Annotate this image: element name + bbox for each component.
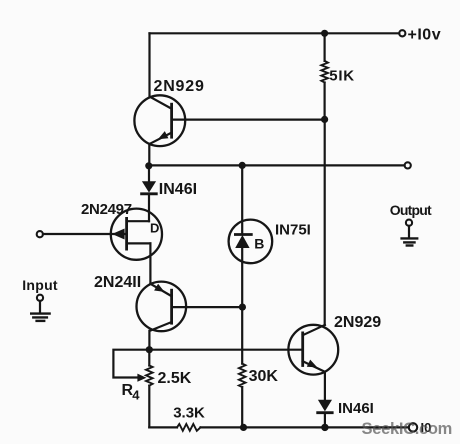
svg-text:4: 4 [132,387,140,402]
svg-text:2N2497: 2N2497 [81,201,132,218]
resistor R4 2.5K [146,350,153,428]
svg-text:30K: 30K [249,368,279,385]
svg-text:IN46I: IN46I [338,400,374,417]
svg-text:2.5K: 2.5K [158,370,192,387]
wire bottom rail left [149,426,177,428]
wire Q3 collector [148,331,150,350]
fet Q2 2N2497 [111,209,162,284]
transistor Q1 2N929 [134,95,185,146]
terminal output wire end [405,162,411,168]
diode D3 1N461 [318,400,333,428]
svg-text:IN46I: IN46I [159,181,197,198]
wire top rail +10v [150,32,400,34]
svg-text:B: B [254,235,264,251]
node dot 51K / Q1 base [321,116,328,123]
pot wiper arrow [137,374,146,382]
resistor 51K [321,61,328,83]
svg-text:D: D [150,220,159,235]
svg-text:2N929: 2N929 [154,78,205,95]
svg-text:5IK: 5IK [329,68,355,85]
wire Q1 emitter [148,144,150,166]
wire 51K top lead [324,33,326,61]
svg-text:IN75I: IN75I [275,222,311,239]
terminal input [37,231,43,237]
svg-text:+I0v: +I0v [408,26,442,43]
svg-text:3.3K: 3.3K [173,404,205,421]
node dot 30K bottom rail [240,424,247,431]
wire input lead [43,233,126,235]
node dot top rail / 51K junction [321,30,328,37]
node dot R4 top junction [146,346,153,353]
wire Q3 base [172,306,243,308]
resistor 30K [239,364,246,428]
node dot Q3 base / zener line [239,304,246,311]
svg-text:Input: Input [22,277,58,293]
svg-text:2N929: 2N929 [334,314,381,331]
node dot A (Q1 emitter node) [145,162,152,169]
svg-text:SeekIC.com: SeekIC.com [362,420,453,438]
terminal +10v [399,30,405,36]
node dot zener branch top [239,162,246,169]
input ground [31,295,49,321]
wire Q1 base [172,118,325,120]
transistor Q4 2N929 [288,325,338,375]
transistor Q3 2N2411 [137,282,187,332]
diode D1 1N461 [142,165,157,221]
svg-text:Output: Output [390,202,432,218]
terminal bottom right [409,423,417,431]
wire bottom rail right [201,426,409,428]
wire output node rail [149,164,405,166]
node dot D3 bottom rail [321,424,328,431]
output ground [402,220,418,246]
wire 51K bottom lead [324,83,326,120]
wire Q3 emitter to Q4 base [149,349,302,351]
wire Q1 collector [148,33,150,96]
wire Q4 emitter [324,372,326,400]
wire collector line down to Q4 [324,119,326,325]
svg-text:2N24II: 2N24II [94,274,141,291]
resistor 3.3K [177,424,201,431]
zener D2 1N751 [229,165,273,363]
wire pot wiper loop [113,350,149,378]
